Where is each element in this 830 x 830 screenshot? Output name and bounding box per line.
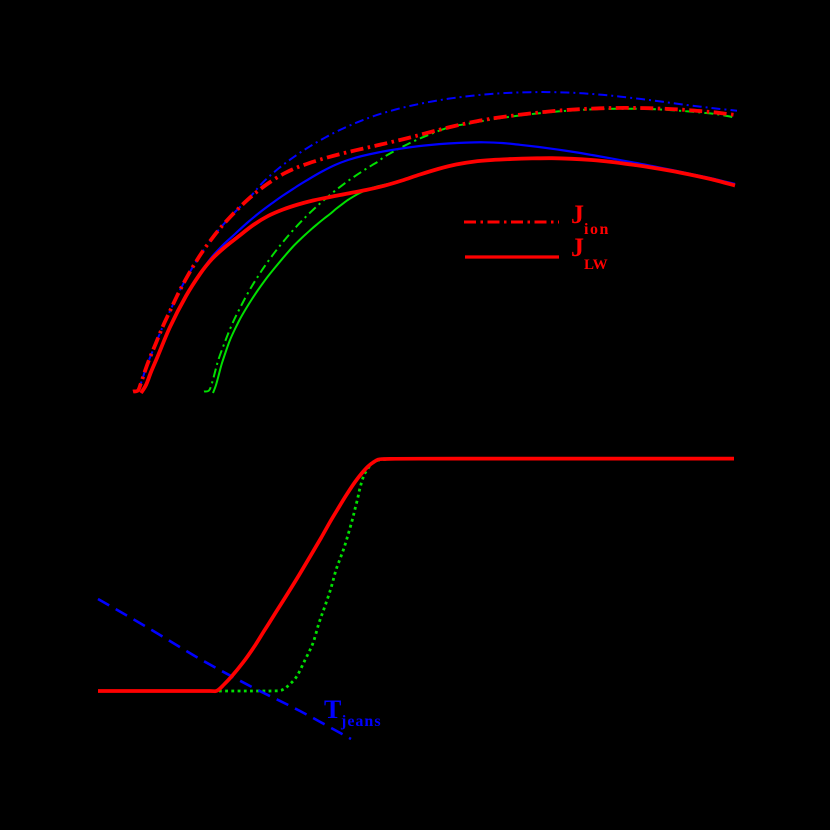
top panel: red solid curve J_LW (141, 158, 735, 393)
bottom panel: blue dashed line T_jeans (98, 599, 351, 739)
svg-text:jeans: jeans (340, 713, 382, 730)
svg-text:ion: ion (584, 221, 610, 238)
svg-text:J: J (571, 200, 584, 229)
top panel: green dash-dot curve (merges with red dash-dot) (204, 109, 734, 392)
top panel: blue solid curve (141, 142, 735, 393)
top panel: green solid curve (213, 184, 390, 393)
top panel: blue dash-dot curve (under red dash-dot at start) (133, 92, 737, 391)
legend: red solid sample line (465, 255, 559, 258)
legend: red dash-dot sample line (464, 221, 559, 224)
bottom panel: red solid curve (98, 459, 734, 692)
svg-text:LW: LW (584, 257, 608, 273)
svg-text:J: J (571, 233, 584, 262)
svg-text:T: T (324, 695, 341, 724)
bottom panel: green dotted curve (219, 459, 387, 691)
top panel: red dash-dot curve J_ion (133, 108, 734, 392)
